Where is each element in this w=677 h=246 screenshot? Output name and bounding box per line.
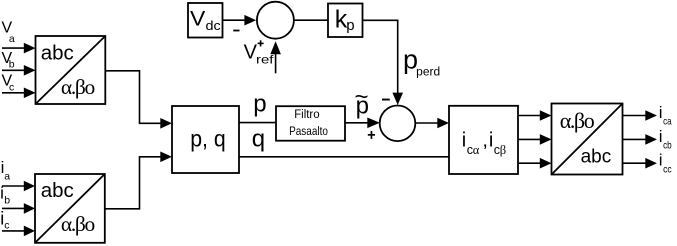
svg-text:α: α xyxy=(473,143,480,157)
svg-text:cb: cb xyxy=(663,140,672,152)
svg-text:,: , xyxy=(482,130,488,152)
svg-text:p: p xyxy=(346,17,354,34)
svg-text:Pasaalto: Pasaalto xyxy=(289,124,328,138)
svg-text:α.βο: α.βο xyxy=(61,75,95,99)
svg-text:p: p xyxy=(253,90,266,117)
svg-text:abc: abc xyxy=(41,179,74,202)
svg-text:abc: abc xyxy=(41,42,74,65)
svg-text:c: c xyxy=(4,220,9,232)
svg-text:α.βο: α.βο xyxy=(560,108,595,133)
svg-text:b: b xyxy=(4,195,10,207)
svg-text:~: ~ xyxy=(355,84,369,111)
svg-text:b: b xyxy=(9,59,15,71)
svg-text:a: a xyxy=(9,33,15,45)
svg-text:dc: dc xyxy=(206,19,221,33)
svg-text:Filtro: Filtro xyxy=(294,107,320,121)
svg-text:abc: abc xyxy=(581,146,612,167)
svg-text:c: c xyxy=(9,82,14,94)
svg-text:p, q: p, q xyxy=(190,125,226,151)
svg-text:ref: ref xyxy=(256,52,274,66)
svg-text:i: i xyxy=(659,127,663,146)
svg-text:i: i xyxy=(659,151,663,170)
svg-text:β: β xyxy=(500,143,506,157)
svg-text:a: a xyxy=(4,170,10,182)
svg-text:i: i xyxy=(462,130,466,152)
svg-text:i: i xyxy=(489,130,493,152)
svg-text:ca: ca xyxy=(663,116,672,128)
svg-text:perd: perd xyxy=(416,67,440,79)
svg-text:α.βο: α.βο xyxy=(61,212,95,236)
svg-text:V: V xyxy=(190,8,205,31)
svg-text:i: i xyxy=(659,103,663,122)
svg-text:cc: cc xyxy=(663,164,672,176)
svg-text:q: q xyxy=(252,125,265,152)
